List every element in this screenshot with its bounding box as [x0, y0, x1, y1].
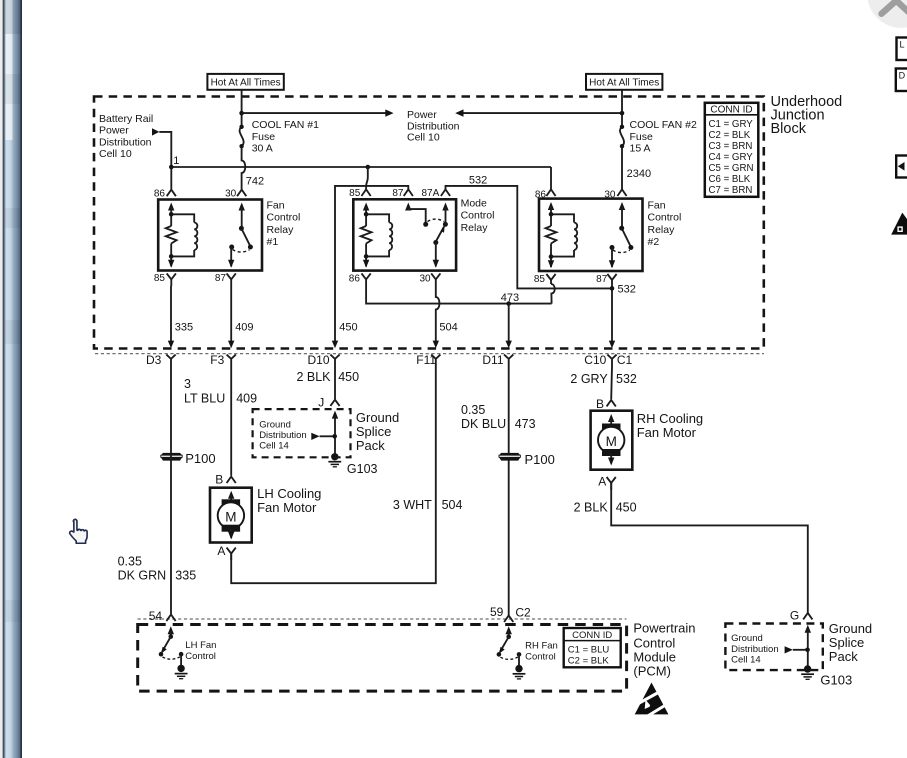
fuse COOL FAN #2 15A — [620, 119, 697, 154]
hand cursor — [70, 519, 87, 543]
wire circuit 504: K2 pin30 to F11 (hops link wire) — [436, 286, 440, 342]
partial toolbar button L (right edge) — [897, 38, 907, 61]
svg-text:Distribution: Distribution — [259, 430, 307, 441]
pin 30 connector (K3 top) — [617, 189, 626, 196]
svg-text:2 GRY: 2 GRY — [570, 372, 608, 386]
relay K2 Mode Control Relay box — [353, 199, 456, 270]
svg-text:G103: G103 — [347, 462, 378, 476]
label Powertrain Control Module (PCM) — [633, 621, 695, 679]
wire circuit 450 D10 to splice pack — [334, 366, 336, 399]
Underhood Junction Block dashed boundary — [94, 97, 764, 349]
svg-text:CONN ID: CONN ID — [710, 104, 752, 115]
switch LH Fan Control — [159, 626, 217, 665]
wire bus to relay K3 pin 86 — [550, 167, 552, 189]
svg-text:473: 473 — [515, 417, 536, 431]
wire K2 pin86 to K3 pin85 link — [366, 286, 551, 304]
svg-text:G103: G103 — [820, 673, 852, 688]
pin 30 connector (K2 bottom) — [431, 273, 440, 286]
svg-text:Control: Control — [185, 651, 216, 662]
connector table CONN ID (UJB) — [705, 103, 759, 197]
pin 85 connector (K3 bottom) — [546, 274, 555, 284]
svg-text:2 BLK: 2 BLK — [296, 370, 331, 384]
svg-text:Ground: Ground — [259, 420, 291, 431]
wire bus B+ horizontal — [171, 166, 551, 168]
svg-text:Power: Power — [99, 125, 129, 137]
label Power Distribution Cell 10 — [407, 109, 460, 144]
fuse COOL FAN #1 30A — [239, 119, 319, 154]
node Battery Rail Power Distribution Cell 10 — [99, 113, 159, 160]
svg-text:54: 54 — [149, 609, 163, 623]
cable label 3 LT BLU 409 — [184, 377, 257, 406]
relay K3 switch — [609, 202, 634, 268]
svg-text:C4 = GRY: C4 = GRY — [709, 152, 754, 163]
svg-text:(PCM): (PCM) — [633, 664, 671, 679]
pin 87 connector (K2 top) — [404, 189, 413, 196]
svg-text:Battery Rail: Battery Rail — [99, 113, 153, 125]
svg-text:Relay: Relay — [461, 222, 489, 234]
relay K1 coil branch — [166, 203, 198, 268]
svg-text:Power: Power — [407, 109, 437, 121]
wire K3 pin85 to link (hops circuit 532) — [551, 284, 555, 304]
ground (LH fan control) — [175, 665, 188, 679]
svg-text:LT BLU: LT BLU — [184, 392, 225, 406]
relay K2 coil branch — [361, 203, 393, 268]
svg-text:87: 87 — [596, 274, 608, 285]
svg-text:86: 86 — [154, 189, 166, 200]
pin 85 connector (K2 top) — [362, 189, 371, 196]
ground splice pack (lower) dashed box — [725, 624, 822, 671]
svg-text:D3: D3 — [146, 353, 162, 367]
pin G connector (ground splice pack) — [790, 608, 813, 622]
junction at battery feed — [169, 165, 174, 170]
svg-text:504: 504 — [439, 321, 457, 333]
connector D3 (UJB) — [146, 341, 176, 367]
cable label 0.35 DK BLU 473 — [461, 403, 536, 431]
svg-text:#1: #1 — [267, 236, 279, 248]
connector D11 (UJB) — [482, 341, 513, 367]
partial toolbar button D (right edge) — [896, 69, 907, 92]
junction above fuse 2 — [620, 111, 625, 116]
wire Hot-At-All-Times 1 down to fuse — [241, 90, 243, 127]
svg-text:85: 85 — [349, 188, 361, 199]
svg-text:Module: Module — [633, 650, 676, 665]
svg-text:2 BLK: 2 BLK — [574, 500, 609, 514]
wire from fuse 2 to Power Distribution Cell 10 (left arrow) — [455, 109, 622, 116]
wire circuit 409 F3 to LH motor B — [230, 366, 232, 476]
connector face dotted line (UJB bottom) — [95, 353, 764, 355]
svg-text:85: 85 — [534, 274, 546, 285]
motor M2 RH Cooling Fan Motor — [591, 397, 704, 490]
svg-text:D11: D11 — [482, 353, 503, 367]
svg-text:LH Fan: LH Fan — [185, 640, 216, 651]
svg-text:Splice: Splice — [356, 424, 391, 439]
switch RH Fan Control — [497, 626, 558, 665]
wire circuit 473 D11 to PCM 59 — [508, 366, 510, 616]
svg-text:Control: Control — [267, 212, 301, 224]
svg-text:86: 86 — [535, 189, 547, 200]
svg-text:C2: C2 — [515, 606, 531, 620]
Powertrain Control Module dashed boundary — [138, 625, 627, 692]
svg-text:409: 409 — [235, 321, 253, 333]
wire K1 pin85 to D3 — [170, 286, 172, 342]
svg-text:86: 86 — [349, 273, 361, 284]
svg-text:30 A: 30 A — [252, 142, 273, 154]
svg-text:Control: Control — [648, 212, 682, 224]
svg-text:87A: 87A — [422, 188, 440, 199]
pin 87 connector (K1 bottom) — [227, 273, 236, 286]
svg-text:Distribution: Distribution — [731, 644, 779, 655]
cable label 2 BLK 450 (RH) — [574, 500, 637, 514]
junction above fuse 1 — [239, 111, 244, 116]
wire to Power Distribution Cell 10 (right arrow) — [242, 109, 394, 116]
wire circuit 335 D3 to PCM 54 — [170, 366, 172, 614]
cable label 2 GRY 532 — [570, 372, 637, 386]
svg-text:M: M — [225, 509, 236, 524]
pin 86 connector (K1 top) — [167, 190, 176, 197]
ESD sensitive device symbol — [633, 683, 671, 718]
svg-text:COOL FAN #1: COOL FAN #1 — [252, 119, 319, 131]
svg-text:Fan Motor: Fan Motor — [637, 425, 697, 440]
connector table CONN ID (PCM) — [564, 628, 621, 667]
wire battery rail feed to bus — [159, 132, 171, 167]
svg-text:LH Cooling: LH Cooling — [257, 486, 321, 501]
svg-text:B: B — [215, 473, 223, 487]
wire Hot-At-All-Times 2 down to fuse 2 — [621, 90, 623, 127]
wire C10/C1 to RH motor B — [610, 366, 613, 399]
ground splice pack (upper) dashed box — [253, 409, 351, 457]
svg-text:Mode: Mode — [461, 197, 487, 209]
svg-text:Cell 14: Cell 14 — [259, 441, 289, 452]
svg-text:Control: Control — [525, 651, 556, 662]
svg-text:473: 473 — [501, 292, 519, 304]
ground (RH fan control) — [513, 665, 526, 679]
wire circuit 450: K2 pin 87 to D10 — [335, 186, 408, 342]
wire circuit 532: K2 pin 87A right and down — [446, 186, 613, 289]
relay K1 Fan Control Relay #1 box — [158, 200, 262, 271]
connector C10 / C1 (UJB) — [584, 341, 632, 367]
svg-text:P100: P100 — [525, 452, 555, 467]
connector F11 (UJB) — [416, 341, 440, 367]
power label Hot At All Times (right) — [586, 74, 662, 90]
junction at mode relay feed — [366, 165, 371, 170]
svg-text:30: 30 — [604, 189, 616, 200]
relay K2 switch — [405, 203, 449, 268]
svg-text:A: A — [598, 475, 606, 489]
svg-text:Distribution: Distribution — [99, 136, 152, 148]
svg-text:87: 87 — [392, 188, 404, 199]
node Ground Distribution Cell 14 (upper) — [259, 420, 335, 452]
svg-text:3 WHT: 3 WHT — [393, 498, 432, 512]
svg-text:Fan Motor: Fan Motor — [257, 500, 317, 515]
svg-text:Hot At All Times: Hot At All Times — [211, 78, 281, 89]
relay K1 switch — [228, 203, 253, 268]
svg-text:Pack: Pack — [356, 438, 385, 453]
pin 30 connector (K1 top) — [237, 190, 246, 197]
junction circuit 473 — [506, 301, 511, 306]
motor M1 LH Cooling Fan Motor — [210, 473, 321, 560]
svg-text:59: 59 — [490, 605, 504, 619]
svg-text:C3 = BRN: C3 = BRN — [709, 141, 753, 152]
svg-text:F11: F11 — [416, 353, 436, 367]
pin 85 connector (K1 bottom) — [167, 273, 176, 286]
relay K1 name — [267, 199, 301, 248]
splice pass-through P100 (left) — [161, 451, 216, 466]
svg-text:L: L — [900, 40, 905, 50]
svg-text:85: 85 — [154, 273, 166, 284]
svg-text:1: 1 — [173, 155, 179, 167]
svg-text:Control: Control — [633, 636, 675, 651]
svg-text:Fuse: Fuse — [630, 131, 654, 143]
svg-text:J: J — [318, 396, 324, 410]
pin 54 connector (PCM) — [149, 609, 176, 623]
wire circuit 450 RH motor A to ground splice pack G — [611, 483, 808, 613]
svg-text:Block: Block — [771, 121, 807, 137]
svg-text:Ground: Ground — [356, 410, 399, 425]
connector F3 (UJB) — [210, 341, 236, 367]
svg-text:C1 = BLU: C1 = BLU — [568, 644, 610, 655]
svg-text:504: 504 — [442, 498, 463, 512]
svg-text:Fan: Fan — [267, 199, 285, 211]
svg-text:532: 532 — [618, 284, 636, 296]
wire circuit 504 F11 to LH motor A — [231, 366, 436, 583]
svg-text:P100: P100 — [185, 451, 215, 466]
svg-text:0.35: 0.35 — [461, 403, 485, 417]
wire bus to relay K1 pin 86 — [170, 167, 172, 189]
relay K3 coil branch — [546, 202, 578, 268]
svg-text:450: 450 — [339, 321, 357, 333]
svg-text:335: 335 — [175, 569, 196, 583]
svg-text:Pack: Pack — [829, 649, 858, 664]
svg-text:Ground: Ground — [829, 621, 872, 636]
svg-text:Relay: Relay — [267, 224, 295, 236]
svg-text:450: 450 — [338, 370, 359, 384]
svg-text:532: 532 — [469, 174, 487, 186]
cable label 3 WHT 504 — [393, 498, 463, 512]
wire bus to K2 pin 85 (hops circuit 450) — [366, 167, 368, 189]
svg-text:532: 532 — [616, 372, 637, 386]
svg-text:Cell 14: Cell 14 — [731, 655, 761, 666]
svg-text:B: B — [596, 397, 604, 411]
svg-text:742: 742 — [246, 175, 264, 187]
relay K3 Fan Control Relay #2 box — [539, 199, 643, 271]
svg-text:G: G — [790, 608, 799, 622]
svg-text:RH Cooling: RH Cooling — [637, 411, 703, 426]
svg-text:Relay: Relay — [648, 224, 676, 236]
pin J connector (splice pack) — [318, 396, 339, 410]
svg-text:30: 30 — [419, 273, 431, 284]
pin 87 connector (K3 bottom) — [607, 274, 616, 284]
svg-text:A: A — [217, 544, 225, 558]
svg-text:3: 3 — [184, 377, 191, 391]
pin 86 connector (K3 top) — [546, 189, 555, 196]
pin 86 connector (K2 bottom) — [362, 273, 371, 286]
label Ground Splice Pack (upper) — [356, 410, 399, 453]
svg-text:335: 335 — [175, 321, 193, 333]
svg-text:Hot At All Times: Hot At All Times — [589, 78, 659, 89]
power label Hot At All Times (left) — [207, 74, 283, 90]
wire fuse 1 to relay 1 pin 30 (hops over bus) — [242, 146, 246, 189]
svg-text:0.35: 0.35 — [118, 554, 142, 568]
scroll-to-top round button (partially cut, top right) — [867, 0, 907, 28]
ground G103 (upper) — [328, 453, 377, 476]
svg-text:DK BLU: DK BLU — [461, 417, 506, 431]
svg-text:RH Fan: RH Fan — [525, 640, 558, 651]
cable label 0.35 DK GRN 335 — [118, 554, 197, 582]
wire K1 pin87 to F3 — [230, 286, 232, 342]
svg-text:Cell 10: Cell 10 — [407, 131, 440, 143]
svg-text:DK GRN: DK GRN — [118, 569, 167, 583]
svg-text:Fan: Fan — [648, 199, 666, 211]
svg-text:C10: C10 — [584, 353, 606, 367]
label Ground Splice Pack (lower) — [829, 621, 872, 664]
svg-text:C2 = BLK: C2 = BLK — [709, 130, 751, 141]
svg-text:Splice: Splice — [829, 635, 864, 650]
relay K2 name — [461, 197, 495, 233]
svg-text:C7 = BRN: C7 = BRN — [709, 185, 753, 196]
partial toolbar button back-arrow (right edge) — [896, 156, 907, 178]
svg-text:450: 450 — [616, 500, 637, 514]
svg-text:Ground: Ground — [731, 633, 763, 644]
cable label 2 BLK 450 — [296, 370, 359, 384]
svg-text:COOL FAN #2: COOL FAN #2 — [630, 119, 697, 131]
wire K3 pin87 to C10/C1 — [611, 284, 613, 342]
label Underhood Junction Block — [771, 94, 843, 137]
pin 59 / C2 connector (PCM) — [490, 605, 531, 622]
svg-text:CONN ID: CONN ID — [572, 630, 612, 641]
svg-text:Control: Control — [461, 210, 495, 222]
PCM connector face dotted line — [138, 618, 627, 620]
connector D10 (UJB) — [308, 341, 340, 367]
node Ground Distribution Cell 14 (lower) — [731, 633, 807, 665]
wire circuit 473 down to D11 — [508, 304, 510, 342]
wire fuse 2 to relay 2 pin 30 — [621, 146, 623, 189]
svg-text:C1 = GRY: C1 = GRY — [709, 119, 754, 130]
relay K3 name — [648, 199, 682, 248]
svg-text:F3: F3 — [210, 353, 224, 367]
junction circuit 532 at pin87 wire — [610, 286, 615, 291]
splice pass-through P100 (right) — [499, 452, 555, 467]
svg-text:C6 = BLK: C6 = BLK — [709, 174, 751, 185]
svg-text:D: D — [899, 71, 906, 81]
svg-text:M: M — [606, 434, 617, 449]
pin 87A connector (K2 top) — [441, 189, 450, 196]
svg-text:C1: C1 — [617, 353, 633, 367]
svg-text:Fuse: Fuse — [252, 131, 276, 143]
partial warning triangle icon (right edge) — [891, 213, 907, 235]
svg-text:87: 87 — [215, 273, 227, 284]
svg-text:2340: 2340 — [627, 168, 651, 180]
wire splice pack internal (upper) — [332, 411, 338, 456]
svg-text:D10: D10 — [308, 353, 330, 367]
svg-text:15 A: 15 A — [630, 142, 651, 154]
svg-text:C2 = BLK: C2 = BLK — [568, 656, 610, 667]
svg-text:30: 30 — [225, 189, 237, 200]
svg-text:409: 409 — [236, 392, 257, 406]
svg-text:C5 = GRN: C5 = GRN — [709, 163, 754, 174]
svg-text:Cell 10: Cell 10 — [99, 148, 132, 160]
svg-text:#2: #2 — [648, 236, 660, 248]
svg-text:Powertrain: Powertrain — [633, 621, 695, 636]
ground G103 (lower) — [801, 665, 852, 687]
wire splice pack internal (lower) — [805, 625, 811, 668]
